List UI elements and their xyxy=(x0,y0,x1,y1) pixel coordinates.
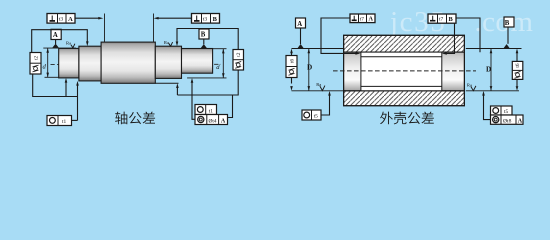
housing top wall hatch xyxy=(344,35,465,52)
shared leader: left then up-arrow to bottom extension line xyxy=(484,94,491,120)
datum B leader and triangle xyxy=(203,39,205,44)
roughness Ra mark (left journal) xyxy=(71,44,75,48)
svg-text:Øt4: Øt4 xyxy=(209,119,217,125)
svg-text:A: A xyxy=(68,16,73,23)
vertical FCF cylindricity t6 (housing right) xyxy=(512,61,523,79)
svg-text:t7: t7 xyxy=(439,17,443,23)
coaxiality leader: left edge to journal-bottom ext-line arrow xyxy=(192,81,195,119)
svg-text:B: B xyxy=(505,20,510,27)
small text labels left figure xyxy=(33,16,242,125)
vertical FCF cylindricity t6 (housing left) xyxy=(286,56,297,78)
FCF circularity t1 (bottom-left) xyxy=(47,116,72,126)
watermark jc35.com xyxy=(389,6,533,38)
perpendicularity symbols in housing FCFs xyxy=(352,16,436,21)
left bearing seat surface xyxy=(344,52,361,91)
right t2 leader top: up, left, arrow down onto shoulder top xyxy=(177,29,238,50)
dimension d (left): extension line bottom xyxy=(45,76,59,78)
housing centerline xyxy=(333,70,476,72)
middle shoulder bore lines xyxy=(361,57,442,87)
shaft centerline stub left xyxy=(51,64,69,66)
datum A leader and triangle xyxy=(55,40,57,45)
svg-text:t3: t3 xyxy=(203,17,208,23)
roughness Ra mark (housing left, on bottom ext line) xyxy=(320,86,325,91)
svg-text:t3: t3 xyxy=(59,17,64,23)
svg-text:A: A xyxy=(369,16,374,23)
arrow up onto body bottom edge extension xyxy=(176,87,178,96)
svg-text:t1: t1 xyxy=(209,108,213,114)
svg-text:B: B xyxy=(201,32,206,39)
housing outline xyxy=(344,35,465,105)
datum B leader and triangle (housing) xyxy=(507,27,509,44)
FCF coaxiality t4 A (bottom-right) xyxy=(195,115,228,125)
cylindricity symbols (rotated) in vertical FCFs xyxy=(33,62,242,72)
perpendicularity symbols in left FCFs xyxy=(50,16,200,21)
FCF perpendicularity t3 B (top-right) xyxy=(192,14,220,24)
svg-text:D: D xyxy=(486,66,491,74)
shaft shoulder S2 xyxy=(155,46,181,78)
body dark-band extension line (under S2) xyxy=(155,82,178,84)
t6 left: arrows up and down to extension lines xyxy=(291,52,293,84)
FCF perpendicularity t7 B (housing top-right) xyxy=(428,14,456,23)
extension line D right top xyxy=(466,48,522,50)
label 外壳公差 xyxy=(380,112,434,125)
t7B bottom leader: down, left arrow to seat step face xyxy=(446,23,455,53)
svg-text:A: A xyxy=(518,119,523,125)
dimension D line (left) xyxy=(308,49,310,91)
FCF perpendicularity t7 A (housing top-left) xyxy=(350,14,375,23)
dimension d (right) dimension line with arrows xyxy=(222,49,224,78)
shaft centerline stub right xyxy=(208,63,222,65)
label 轴公差 xyxy=(115,112,155,125)
datum B box (housing) xyxy=(504,17,514,27)
FCF perpendicularity t3 A (top-left) xyxy=(47,14,75,24)
dimension d (left): datum/extension line top xyxy=(43,47,76,49)
svg-text:t5: t5 xyxy=(314,114,318,120)
svg-text:Ra: Ra xyxy=(66,41,71,46)
cylindricity symbols (rotated) in housing vertical FCFs xyxy=(289,68,521,78)
svg-text:t6: t6 xyxy=(515,63,521,67)
vertical FCF cylindricity t2 (left) xyxy=(30,53,41,75)
t5 leader: right then up-arrow to bottom extension line xyxy=(321,94,330,115)
vertical through-wire to circularity frame with arrow onto shoulder bottom xyxy=(77,84,79,120)
svg-text:B: B xyxy=(449,16,454,23)
svg-text:t2: t2 xyxy=(236,52,242,56)
svg-text:D: D xyxy=(307,64,312,72)
housing bottom wall hatch xyxy=(344,91,465,106)
extension line D left top xyxy=(292,48,344,50)
t6 right: arrows up and down to extension lines xyxy=(516,52,518,86)
roughness Ra mark (housing right, on bottom ext line) xyxy=(471,86,476,91)
shaft journal J1 xyxy=(59,48,79,78)
extension line of shoulder face (right) xyxy=(153,14,155,42)
svg-text:t7: t7 xyxy=(360,16,364,22)
svg-text:A: A xyxy=(221,119,226,125)
bore white area xyxy=(344,52,465,91)
dimension d (left) dimension line with arrows xyxy=(47,48,49,77)
svg-text:B: B xyxy=(213,16,218,23)
svg-text:t6: t6 xyxy=(289,59,295,63)
FCF t3B leader with arrow xyxy=(157,17,192,19)
shaft journal J2 xyxy=(182,49,213,74)
extension line D left bottom xyxy=(292,90,344,92)
svg-text:Ra: Ra xyxy=(164,40,169,45)
FCF coaxiality t8 A (housing bottom-right) xyxy=(491,115,524,124)
svg-text:t5: t5 xyxy=(504,109,508,115)
svg-text:Øt8: Øt8 xyxy=(503,119,512,125)
dimension d (right): extension line bottom (continues journal band) xyxy=(187,77,226,79)
right t2 leader bottom: down, left along wire xyxy=(177,70,238,95)
datum A box xyxy=(51,29,61,39)
FCF circularity t5 (housing bottom-left) xyxy=(302,110,321,120)
svg-text:Ra: Ra xyxy=(467,83,472,88)
datum A leader and triangle (housing) xyxy=(300,28,302,44)
right bearing seat surface xyxy=(442,52,465,91)
shaft body xyxy=(101,42,155,83)
svg-text:A: A xyxy=(297,21,302,28)
dimension D line (right) xyxy=(490,49,492,91)
branch arrow up onto journal bottom xyxy=(65,81,67,96)
extension line of shoulder face (left) xyxy=(104,14,106,42)
small text labels right figure xyxy=(289,16,523,125)
t2 left leader bottom: down, right along wire xyxy=(33,74,78,97)
t2 left leader top: up, right, arrow down onto shoulder top xyxy=(32,30,88,53)
bore outline at hatch boundary xyxy=(344,52,465,91)
t7B right leader: right then down xyxy=(456,18,480,52)
FCF t3A leader with arrow xyxy=(75,17,100,19)
svg-text:Ra: Ra xyxy=(316,82,321,87)
dimension d (right): extension line top xyxy=(213,48,227,50)
circularity t1 leader stub xyxy=(72,119,78,121)
datum B box xyxy=(199,29,209,39)
svg-text:A: A xyxy=(53,32,58,39)
svg-text:t2: t2 xyxy=(33,56,39,60)
svg-text:t1: t1 xyxy=(62,119,66,125)
datum A box (housing) xyxy=(296,18,306,28)
FCF circularity t1 (bottom-right) xyxy=(195,105,217,115)
extension line D right bottom xyxy=(466,90,519,92)
shaft shoulder S1 xyxy=(79,46,101,81)
FCF circularity t5 (housing bottom-right) xyxy=(491,106,513,115)
vertical FCF cylindricity t2 (right) xyxy=(233,50,244,71)
t7A leader: left, down, right arrow to seat step face xyxy=(321,18,357,53)
roughness Ra mark (right shoulder) xyxy=(169,42,173,46)
drop line to coaxiality frame xyxy=(228,95,233,118)
